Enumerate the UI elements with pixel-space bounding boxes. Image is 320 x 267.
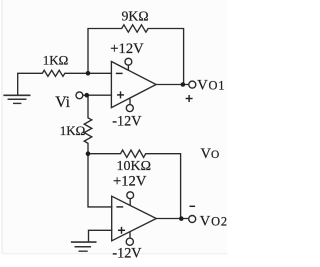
svg-text:-12V: -12V [112, 245, 142, 261]
svg-text:+12V: +12V [113, 173, 147, 189]
svg-text:10KΩ: 10KΩ [117, 159, 152, 174]
svg-text:-12V: -12V [112, 113, 142, 129]
svg-text:9KΩ: 9KΩ [122, 8, 149, 23]
svg-text:Vi: Vi [55, 94, 70, 111]
svg-text:1KΩ: 1KΩ [43, 53, 69, 68]
svg-text:+12V: +12V [110, 41, 144, 57]
svg-text:VO1: VO1 [197, 78, 225, 94]
svg-text:1KΩ: 1KΩ [60, 123, 86, 138]
svg-text:VO: VO [201, 146, 220, 162]
svg-text:VO2: VO2 [200, 213, 227, 229]
